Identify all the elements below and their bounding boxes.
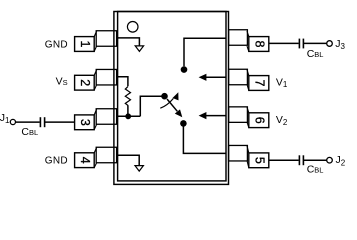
switch wiper bbox=[167, 99, 177, 111]
svg-text:GND: GND bbox=[45, 156, 68, 167]
svg-text:6: 6 bbox=[252, 117, 266, 124]
switch motion arc bbox=[160, 99, 173, 109]
pin 2 lead bbox=[94, 69, 116, 90]
pin 1 lead bbox=[94, 31, 116, 52]
svg-text:VS: VS bbox=[56, 75, 68, 87]
svg-text:5: 5 bbox=[252, 157, 266, 164]
svg-text:4: 4 bbox=[78, 157, 92, 164]
pin 4 number box bbox=[75, 153, 95, 168]
pin 5 number box bbox=[249, 153, 269, 168]
switch wiper arrowhead bbox=[175, 109, 183, 117]
switch pole contact dot bbox=[161, 93, 168, 100]
wire pin 5 to capacitor bbox=[269, 159, 299, 161]
svg-text:CBL: CBL bbox=[21, 126, 38, 138]
arrowhead V2 bbox=[199, 112, 207, 119]
wire pin 6 (V2) bbox=[206, 115, 226, 117]
wire pin 2 to resistor bbox=[116, 77, 128, 87]
junction dot (resistor / pin 3 wire) bbox=[125, 113, 131, 119]
connector J2 terminal bbox=[327, 157, 333, 163]
svg-text:CBL: CBL bbox=[307, 48, 324, 60]
wire resistor to junction bbox=[127, 105, 129, 116]
svg-text:V2: V2 bbox=[276, 114, 288, 127]
wire pin 8 to switch upper contact bbox=[184, 38, 226, 66]
pin 4 lead bbox=[94, 147, 116, 167]
wire pin 4 to internal ground bbox=[116, 155, 139, 165]
connector J3 terminal bbox=[327, 41, 333, 47]
svg-text:CBL: CBL bbox=[307, 164, 324, 176]
pin 7 lead bbox=[229, 69, 249, 90]
svg-text:3: 3 bbox=[78, 119, 92, 126]
wire junction to switch pole bbox=[140, 96, 162, 116]
pin 1 number box bbox=[75, 37, 95, 52]
connector J1 terminal bbox=[10, 119, 15, 124]
pin 2 number box bbox=[75, 75, 95, 90]
svg-text:7: 7 bbox=[252, 80, 266, 87]
pin 5 lead bbox=[229, 145, 249, 167]
pin 3 lead bbox=[94, 109, 116, 130]
pin 8 lead bbox=[229, 30, 249, 52]
wire capacitor to J3 bbox=[303, 42, 326, 44]
wire pin 8 to capacitor bbox=[269, 42, 299, 44]
wire pin 7 (V1) bbox=[206, 76, 226, 78]
ground symbol (pin 1) bbox=[135, 46, 143, 52]
resistor R1 bbox=[125, 87, 130, 106]
svg-text:GND: GND bbox=[45, 40, 68, 51]
IC U1 body inner outline bbox=[118, 12, 226, 181]
svg-text:V1: V1 bbox=[276, 76, 288, 89]
IC U1 body outer outline bbox=[114, 12, 229, 185]
switch motion arc arrowhead bbox=[173, 92, 179, 100]
pin 6 lead bbox=[229, 107, 249, 128]
pin 3 number box bbox=[75, 115, 95, 130]
svg-text:J3: J3 bbox=[335, 38, 345, 51]
wire capacitor to J2 bbox=[303, 159, 326, 161]
svg-text:2: 2 bbox=[78, 79, 92, 86]
capacitor CBL (J3) bbox=[299, 39, 303, 49]
arrowhead V1 bbox=[199, 74, 207, 81]
wire switch lower contact to pin 5 bbox=[183, 126, 226, 153]
wire pin 3 internal bbox=[116, 115, 140, 117]
svg-text:1: 1 bbox=[78, 41, 92, 48]
wire capacitor to pin 3 bbox=[45, 121, 75, 123]
svg-text:8: 8 bbox=[252, 41, 266, 48]
pin 6 number box bbox=[249, 113, 269, 128]
svg-text:J2: J2 bbox=[336, 154, 346, 167]
switch lower contact dot bbox=[180, 120, 187, 127]
IC pin-1 orientation circle bbox=[127, 22, 138, 33]
svg-text:J1: J1 bbox=[0, 112, 10, 125]
capacitor CBL (input) bbox=[40, 117, 44, 127]
switch upper contact dot bbox=[181, 66, 188, 73]
wire pin 1 to internal ground bbox=[116, 38, 139, 46]
ground symbol (pin 4) bbox=[135, 166, 143, 172]
wire J1 to capacitor bbox=[16, 121, 40, 123]
capacitor CBL (J2) bbox=[299, 155, 303, 165]
pin 8 number box bbox=[249, 37, 269, 52]
pin 7 number box bbox=[249, 76, 269, 91]
